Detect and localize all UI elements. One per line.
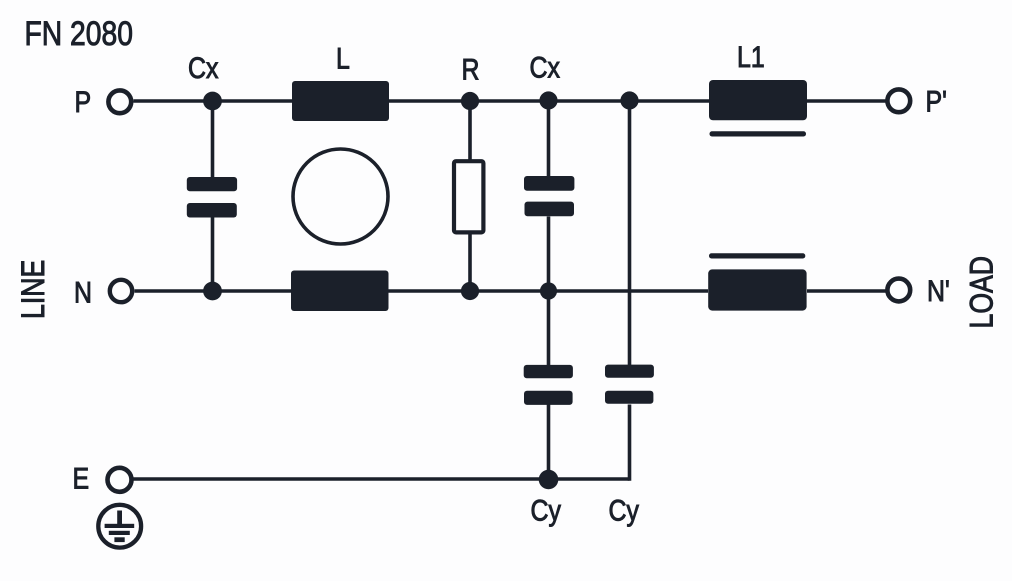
wire Cy1 vertical top [547,291,551,365]
inductor L bottom winding [291,271,389,312]
wire P terminal to L [134,99,293,103]
capacitor Cx1 plate top [187,177,237,191]
wire Cy2 vertical [628,101,632,365]
wire N terminal to L bottom winding [135,289,292,293]
svg-text:R: R [462,52,480,86]
wire Cx2 vertical top [547,101,551,176]
svg-text:LOAD: LOAD [964,256,1000,329]
wire R vertical top [468,101,472,160]
svg-text:N': N' [927,274,950,308]
inductor L core circle [293,149,388,244]
inductor L top winding [292,81,389,121]
inductor L1 top winding [709,80,807,120]
wire Cx1 vertical bottom [211,217,215,291]
wire L1 to P' terminal [807,99,886,103]
node P-R junction [461,92,479,110]
capacitor Cy2 plate top [605,365,654,378]
svg-text:Cx: Cx [530,50,561,84]
wire N' choke to N' terminal [807,289,886,293]
terminal P' [887,89,910,112]
svg-text:L1: L1 [737,40,765,74]
svg-text:P: P [75,85,92,119]
inductor L1 bottom winding [708,269,806,310]
capacitor Cy1 plate bottom [524,391,573,405]
node P-Cy2 junction [620,91,638,109]
svg-text:Cx: Cx [188,51,219,85]
svg-text:Cy: Cy [609,493,640,527]
node N-Cx2/Cy1 junction [540,282,557,299]
wire R vertical bottom [468,234,472,291]
ground symbol [98,505,141,548]
capacitor Cy1 plate top [524,365,573,378]
capacitor Cy2 plate bottom [605,391,653,404]
svg-text:E: E [73,461,90,495]
terminal E [108,468,132,492]
inductor L1 bottom core bar [709,253,805,258]
capacitor Cx1 plate bottom [187,203,237,218]
svg-text:N: N [74,275,92,309]
node N-Cx1 junction [203,282,222,301]
wire E terminal to Cy corner [134,477,630,481]
wire L to L1 [389,99,709,103]
svg-text:P': P' [926,84,947,118]
node P-Cx1 junction [203,92,222,111]
wire L bottom winding to N' choke [388,289,708,293]
terminal N' [887,279,910,302]
wire Cx2 vertical bottom [547,217,551,292]
svg-text:L: L [336,41,350,75]
svg-text:Cy: Cy [531,493,562,527]
terminal N [110,280,132,302]
inductor L1 top core bar [710,131,807,136]
capacitor Cx2 plate top [524,176,574,191]
svg-text:FN 2080: FN 2080 [25,13,133,52]
capacitor Cx2 plate bottom [525,202,575,217]
svg-text:LINE: LINE [16,260,52,319]
resistor R body [454,161,483,232]
wire Cx1 vertical top [211,101,215,177]
node P-Cx2 junction [539,91,557,109]
node E-Cy1 junction [539,470,559,490]
terminal P [108,90,131,113]
wire Cy2 vertical bottom [628,405,632,481]
wire Cy1 vertical bottom [547,405,551,480]
node N-R junction [461,282,479,300]
